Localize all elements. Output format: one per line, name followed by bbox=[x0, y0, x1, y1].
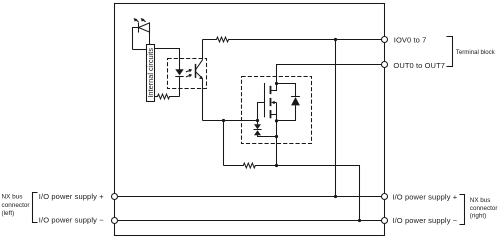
svg-text:connector: connector bbox=[2, 202, 31, 209]
svg-text:I/O power supply +: I/O power supply + bbox=[392, 192, 457, 201]
wire emitter to gate bbox=[203, 120, 258, 122]
OUT terminal bbox=[382, 62, 388, 68]
terminal block bracket bbox=[447, 37, 453, 67]
svg-text:NX bus: NX bus bbox=[470, 197, 491, 204]
svg-text:(right): (right) bbox=[470, 213, 486, 220]
svg-text:NX bus: NX bus bbox=[2, 194, 23, 201]
resistor R1 (top, output series) with top rail bbox=[203, 37, 382, 42]
right minus terminal bbox=[382, 218, 388, 224]
wire source down bbox=[276, 121, 278, 166]
resistor R3 (gate-source) with lower rail bbox=[224, 163, 360, 220]
minus rail bbox=[118, 220, 382, 222]
svg-text:Terminal block: Terminal block bbox=[456, 49, 496, 56]
optocoupler LED bbox=[175, 69, 183, 96]
wire collector to top rail bbox=[202, 40, 204, 60]
wire IOV to power plus bbox=[335, 40, 337, 197]
svg-text:(left): (left) bbox=[2, 210, 15, 217]
optocoupler dashed box bbox=[168, 59, 207, 89]
wire OUT rail to MOSFET drain bbox=[277, 65, 382, 84]
TVS diodes gate-source bbox=[254, 121, 277, 137]
svg-text:Internal circuits: Internal circuits bbox=[146, 48, 155, 98]
unit outline bbox=[115, 4, 385, 236]
IOV terminal bbox=[382, 37, 388, 43]
plus rail bbox=[118, 196, 382, 198]
left NX bus bracket bbox=[33, 193, 38, 223]
svg-text:connector: connector bbox=[470, 205, 498, 212]
resistor R2 (opto LED series) bbox=[155, 94, 180, 99]
left minus terminal bbox=[112, 218, 118, 224]
wire pulldown vertical bbox=[223, 121, 225, 166]
internal circuits block bbox=[147, 45, 155, 102]
MOSFET Q1 bbox=[258, 83, 277, 121]
LED indicator D1 bbox=[133, 18, 150, 50]
left plus terminal bbox=[112, 194, 118, 200]
right NX bus bracket bbox=[460, 195, 465, 225]
svg-text:OUT0 to OUT7: OUT0 to OUT7 bbox=[393, 61, 445, 70]
svg-text:IOV0 to 7: IOV0 to 7 bbox=[394, 36, 427, 45]
right plus terminal bbox=[382, 194, 388, 200]
wire emitter down bbox=[202, 78, 204, 120]
wire internal circuits to optocoupler LED anode bbox=[155, 49, 180, 70]
svg-text:I/O power supply −: I/O power supply − bbox=[392, 216, 457, 225]
MOSFET dashed box bbox=[242, 77, 312, 144]
junction dots bbox=[222, 38, 361, 222]
wire LED loop to internal circuits bbox=[133, 49, 147, 51]
svg-text:I/O power supply −: I/O power supply − bbox=[39, 215, 104, 224]
svg-text:I/O power supply +: I/O power supply + bbox=[39, 192, 104, 201]
flyback diode D2 bbox=[277, 84, 300, 121]
optocoupler phototransistor bbox=[196, 60, 203, 79]
optocoupler light arrows bbox=[186, 69, 192, 78]
